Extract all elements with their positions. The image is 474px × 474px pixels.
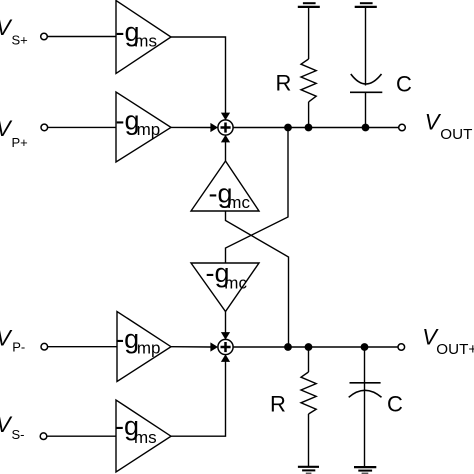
- wire VOUT+ rail: [233, 346, 398, 348]
- wire VP+ to amp Gmp1: [48, 126, 116, 128]
- wire C1 upper stem: [365, 7, 367, 86]
- label VOUT-: [425, 110, 473, 144]
- wire Gmc1 input cross-coupled to node B on VOUT+ rail: [226, 211, 289, 347]
- resistor R1: [301, 59, 316, 102]
- label VS-: [0, 412, 25, 442]
- label -gmp of amp Gmp2: [115, 324, 160, 357]
- wire R2 lower stem: [308, 414, 310, 467]
- wire VS- to amp Gms2: [47, 435, 116, 437]
- wire Gms1 output to summer S1: [171, 37, 226, 113]
- capacitor C1 flat plate: [350, 91, 382, 93]
- amplifier Gmp2 (-gmp): [117, 312, 171, 382]
- svg-text:P-: P-: [12, 340, 25, 355]
- label VOUT+: [422, 325, 474, 359]
- amplifier Gmc2 (-gmc, pointing down): [191, 263, 259, 312]
- ground G3: [298, 467, 319, 474]
- wire Gmc1 output to summer S1: [225, 142, 227, 161]
- wire Gmc2 output to summer S2: [225, 312, 227, 333]
- svg-text:S-: S-: [12, 427, 25, 442]
- svg-text:ms: ms: [134, 32, 157, 51]
- ground G4: [354, 467, 376, 473]
- svg-text:P+: P+: [12, 135, 28, 150]
- svg-text:C: C: [396, 71, 412, 96]
- node VOUT+ output terminal: [398, 344, 405, 351]
- label VP-: [0, 325, 25, 354]
- node VS+ input terminal: [41, 33, 48, 40]
- amplifier Gms1 (-gms): [116, 1, 171, 74]
- svg-text:R: R: [270, 392, 286, 417]
- junction node R1 tap: [305, 124, 313, 132]
- amplifier Gmp1 (-gmp): [116, 92, 171, 162]
- label VP+: [0, 116, 28, 150]
- arrowhead into summer S2 from bottom: [221, 354, 230, 362]
- arrowhead into summer S1 from bottom: [221, 135, 230, 143]
- junction node A on VOUT- rail: [284, 124, 292, 132]
- svg-text:OUT+: OUT+: [436, 341, 474, 358]
- capacitor C2 curved plate: [349, 390, 382, 397]
- wire node A on VOUT- rail cross-coupled to Gmc2 input: [226, 128, 289, 264]
- wire C2 stem: [364, 347, 366, 467]
- wire R1 lower stem: [308, 102, 310, 128]
- label -gmc of amp Gmc1: [209, 179, 251, 213]
- wire Gms2 output to summer S2: [171, 362, 226, 437]
- wire C1 lower stem: [365, 92, 367, 127]
- wire Gmp2 output to summer S2: [171, 346, 211, 348]
- svg-text:mc: mc: [227, 193, 250, 212]
- capacitor C1 curved plate: [351, 74, 382, 84]
- svg-text:V: V: [425, 110, 442, 135]
- wire VS+ to amp Gms1: [47, 36, 116, 38]
- node VOUT- output terminal: [399, 124, 406, 131]
- node VS- input terminal: [40, 433, 47, 440]
- junction node B on VOUT+ rail: [284, 343, 292, 351]
- summer S1: [218, 120, 233, 135]
- node VP+ input terminal: [41, 124, 48, 131]
- wire R2 upper stem: [308, 347, 310, 372]
- svg-text:mc: mc: [224, 273, 247, 292]
- label -gms of amp Gms2: [115, 411, 157, 447]
- label -gmc of amp Gmc2: [206, 258, 248, 292]
- wire VOUT- rail: [233, 127, 399, 129]
- node VP- input terminal: [41, 343, 48, 350]
- svg-text:R: R: [276, 70, 292, 95]
- junction node R2 tap: [305, 343, 313, 351]
- arrowhead into summer S1 from left: [210, 123, 218, 132]
- capacitor C2 flat plate: [350, 382, 381, 384]
- svg-text:mp: mp: [137, 120, 161, 139]
- amplifier Gmc1 (-gmc, pointing up): [191, 161, 259, 211]
- label VS+: [0, 15, 28, 48]
- wire Gmp1 output to summer S1: [171, 126, 211, 128]
- wire VP- to amp Gmp2: [48, 346, 117, 348]
- label -gms of amp Gms1: [116, 17, 157, 50]
- junction node C1 tap: [362, 124, 370, 132]
- svg-text:-g: -g: [115, 324, 139, 354]
- resistor R2: [301, 372, 316, 414]
- amplifier Gms2 (-gms): [116, 400, 171, 472]
- ground G1: [298, 3, 320, 7]
- svg-text:C: C: [387, 392, 403, 417]
- arrowhead into summer S2 from left: [210, 342, 218, 351]
- wire R1 upper stem: [308, 7, 310, 59]
- junction node C2 tap: [361, 343, 369, 351]
- svg-text:S+: S+: [12, 32, 28, 47]
- ground G2: [355, 3, 377, 7]
- svg-text:mp: mp: [137, 339, 161, 358]
- svg-text:OUT: OUT: [440, 126, 472, 143]
- svg-text:ms: ms: [134, 428, 157, 447]
- arrowhead into summer S1 from top: [221, 113, 230, 121]
- summer S2: [218, 339, 233, 354]
- arrowhead into summer S2 from top: [221, 332, 230, 340]
- label -gmp of amp Gmp1: [116, 106, 161, 139]
